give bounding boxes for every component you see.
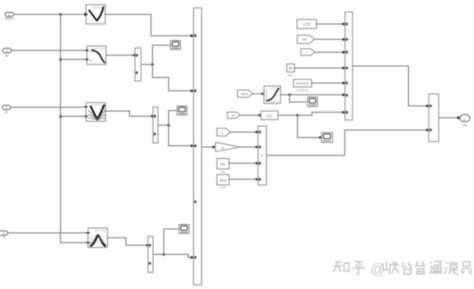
- wire MU2 to bus2 port4: [229, 178, 258, 180]
- wire bus4 out to bus5 upper port: [353, 66, 429, 106]
- wire Ra2 to bus2 port3: [229, 162, 258, 164]
- fcn block u(1): [261, 111, 278, 120]
- wire port1 to block1: [14, 13, 86, 15]
- node at fcn input: [258, 114, 260, 116]
- constant MUxMC rect: [294, 79, 312, 92]
- from tag f1: [217, 128, 230, 136]
- svg-text:alpha: alpha: [241, 92, 249, 96]
- 通: [430, 262, 441, 274]
- node lookup5 output branch: [288, 94, 291, 97]
- svg-text:Ra: Ra: [288, 67, 292, 71]
- constant MU2: [217, 175, 229, 191]
- node at bus2 port3: [255, 162, 257, 164]
- svg-text:2: 2: [6, 49, 8, 53]
- svg-text:1: 1: [463, 117, 465, 121]
- wire alpha vertical distribution: [60, 14, 62, 242]
- lookup table block 2 (2-D): [86, 46, 106, 64]
- node fcn output branch: [296, 114, 299, 117]
- svg-text:2-D T(u): 2-D T(u): [95, 229, 106, 233]
- wire ma to bus4 port2: [315, 38, 346, 40]
- node at bus4 port2: [342, 38, 345, 41]
- node: alpha branch start: [59, 13, 62, 16]
- from tag uM: [228, 112, 241, 118]
- display d1: [171, 41, 181, 50]
- from tag alpha2: [238, 90, 253, 97]
- svg-text:0.25: 0.25: [303, 23, 310, 27]
- node: alpha to block3 u2: [59, 115, 62, 118]
- wire MUxMC to bus4 port5: [312, 82, 346, 84]
- svg-text:s: s: [261, 154, 263, 158]
- bus creator nb1: [135, 48, 141, 81]
- wire uM to fcn: [240, 114, 261, 116]
- 知: [333, 262, 349, 273]
- gain a: [216, 142, 241, 151]
- svg-text:Ra: Ra: [221, 162, 226, 166]
- from tag ma: [297, 35, 314, 43]
- constant Ra1: [287, 64, 295, 78]
- node at mux1 port5: [190, 256, 193, 259]
- display d2: [177, 106, 187, 115]
- wire nb2 out, branch to display d2 and mux1 port3: [158, 124, 169, 126]
- svg-text:CmFCm: CmFCm: [297, 89, 309, 93]
- svg-text:2-D T(u): 2-D T(u): [93, 103, 104, 107]
- bus creator bus4: [345, 12, 353, 120]
- display d4: [322, 133, 333, 143]
- wire block1 out to mux1 port1: [105, 14, 193, 35]
- display d3: [179, 225, 189, 234]
- svg-text:1-D T(u): 1-D T(u): [92, 5, 103, 9]
- wire alpha to block4 u2: [61, 242, 89, 244]
- node at display d4 input: [319, 136, 321, 138]
- 员: [462, 262, 471, 275]
- wire to display d1: [153, 45, 171, 64]
- input port 1 (alpha): [5, 12, 14, 20]
- node at bus4 port7: [342, 111, 345, 114]
- 峡: [383, 261, 399, 274]
- wire Ra1 to bus4 port4: [295, 67, 346, 69]
- node at bus2 port4: [255, 178, 257, 180]
- wire nb1 out, branch to display d1 and mux1 port2: [141, 63, 153, 65]
- wire mux1 out to gain: [202, 146, 215, 148]
- node at lookup5 input: [261, 93, 263, 95]
- node nb1 output branch: [151, 63, 154, 66]
- svg-text:2-D T(u): 2-D T(u): [93, 47, 104, 51]
- svg-text:MU2: MU2: [220, 178, 227, 182]
- svg-text:Ra: Ra: [221, 170, 225, 174]
- wire to mux1 port2: [153, 64, 194, 90]
- watermark 知乎 @峡谷普通演员: [333, 261, 471, 278]
- node at bus4 port5: [342, 82, 345, 85]
- svg-text:Cm: Cm: [220, 186, 225, 190]
- bus creator nb3: [148, 236, 153, 272]
- wire alpha2 to scurve block: [253, 93, 265, 95]
- node at mux1 port1: [190, 34, 193, 37]
- mux1 tall bus creator: [194, 8, 202, 285]
- wire port2 to block2 u1: [11, 49, 87, 51]
- constant Ra2: [217, 159, 229, 175]
- 演: [445, 262, 459, 275]
- 乎: [352, 261, 365, 275]
- node at bus4 port4: [342, 67, 345, 70]
- bus creator bus5: [429, 94, 439, 142]
- wire alpha to block3 u2: [61, 115, 87, 117]
- node at nb1 port1: [133, 54, 135, 56]
- 谷: [402, 262, 413, 274]
- lookup scurve block: [264, 86, 281, 104]
- node: alpha to block2 u2: [59, 58, 62, 61]
- node nb3 output branch: [163, 253, 166, 256]
- svg-text:M: M: [5, 54, 8, 58]
- wire fcn out: branch to bus4 port7 and display d4: [278, 114, 298, 116]
- node at mux1 port2: [190, 90, 193, 93]
- wire nb3 out, branch to display d3 and mux1 port5: [153, 253, 164, 255]
- lookup table block 4 (2-D bell): [87, 228, 108, 248]
- node at bus5 port2: [426, 129, 429, 132]
- node at bus2 port2: [255, 146, 257, 148]
- wire gain to bus2 port2: [240, 146, 258, 148]
- wire port3 to block3 u1: [11, 106, 86, 108]
- wire bus2 out to bus5 lower port: [267, 130, 429, 155]
- input port 4: [0, 231, 8, 240]
- 普: [415, 262, 426, 275]
- node at nb3 port1: [146, 244, 148, 246]
- constant V rect: [297, 20, 317, 29]
- node at mux1 port3: [190, 145, 193, 148]
- node at nb2 port1: [151, 115, 153, 117]
- svg-text:m: m: [5, 110, 8, 114]
- wire block3 out to bus creator nb2: [106, 111, 154, 116]
- svg-text:u(1): u(1): [266, 114, 272, 118]
- svg-text:Tm: Tm: [462, 124, 467, 128]
- node at bus4 port6: [342, 94, 345, 97]
- node nb2 output branch: [167, 124, 170, 127]
- bus creator nb2: [153, 107, 158, 143]
- wire block2 out to bus creator nb1: [106, 54, 135, 56]
- node at bus4 port1: [342, 23, 345, 26]
- wire alpha to block2 u2: [61, 58, 88, 60]
- bus creator bus2: [258, 126, 267, 185]
- lookup table block 1 (1-D): [85, 5, 105, 24]
- svg-text:uM: uM: [231, 114, 236, 118]
- svg-text:ma: ma: [302, 38, 307, 42]
- display d5: [308, 97, 318, 107]
- output port 1: [460, 115, 470, 128]
- lookup table block 3 (2-D fan): [85, 103, 106, 122]
- node at bus5 port1: [426, 105, 429, 108]
- svg-text:Ra1: Ra1: [288, 74, 294, 78]
- from tag v: [301, 49, 315, 56]
- node at output port input: [457, 116, 460, 119]
- svg-text:alpha: alpha: [5, 17, 14, 21]
- node at bus2 port1: [255, 131, 257, 133]
- node at bus4 port3: [342, 51, 345, 54]
- input port 3: [2, 105, 10, 114]
- node at gain input: [212, 146, 215, 149]
- wire scurve out: branch to display d5 and bus4 port6: [281, 94, 290, 96]
- wire v to bus4 port3: [315, 51, 345, 53]
- wire block4 out to bus creator nb3: [108, 238, 149, 246]
- wire f1 to bus2 port1: [230, 131, 258, 133]
- svg-text:MU2MC2: MU2MC2: [296, 82, 309, 86]
- wire V rect to bus4 port1: [317, 23, 346, 25]
- input port 2: [3, 48, 12, 58]
- wire port4 to block4 u1: [8, 232, 88, 234]
- wire bus5 out to output port: [439, 117, 459, 119]
